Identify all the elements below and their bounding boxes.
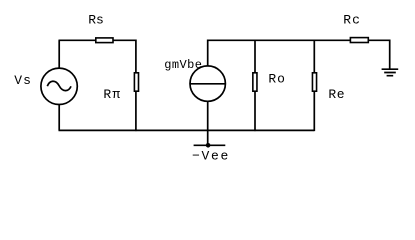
wire Ro bottom to rail bbox=[254, 92, 256, 132]
wire Rs to Rpi corner bbox=[113, 40, 136, 73]
resistor Re bbox=[312, 73, 316, 91]
voltage source Vs bbox=[41, 68, 77, 104]
svg-text:Re: Re bbox=[328, 87, 345, 102]
wire Vs bottom to rail bbox=[58, 105, 60, 130]
chord line inside gmVbe bbox=[190, 83, 225, 85]
svg-text:Rs: Rs bbox=[88, 13, 104, 28]
svg-text:gmVbe: gmVbe bbox=[164, 58, 202, 72]
resistor Rs bbox=[96, 38, 113, 43]
ground bbox=[382, 69, 399, 76]
resistor Rpi bbox=[134, 73, 138, 91]
sine wave inside Vs bbox=[47, 81, 71, 90]
resistor Ro bbox=[253, 73, 257, 91]
wire left vertical from top rail to Vs top bbox=[58, 40, 60, 67]
svg-text:Vs: Vs bbox=[14, 73, 32, 88]
wire top left horizontal to Rs bbox=[59, 39, 97, 41]
wire Ro top bbox=[254, 40, 256, 74]
wire gmVbe bottom through rail to -Vee bar bbox=[207, 101, 209, 146]
wire Rc to ground corner bbox=[369, 40, 390, 69]
wire bottom rail bbox=[59, 129, 315, 131]
svg-text:Ro: Ro bbox=[268, 72, 285, 87]
wire top middle rail bbox=[208, 39, 350, 41]
resistor Rc bbox=[350, 38, 368, 43]
wire Re top bbox=[313, 40, 315, 74]
svg-text:Rπ: Rπ bbox=[103, 87, 121, 102]
wire top rail to gmVbe top bbox=[207, 40, 209, 67]
wire Rpi bottom to rail bbox=[135, 92, 137, 132]
junction dot at -Vee bbox=[206, 143, 211, 148]
svg-text:Rc: Rc bbox=[343, 13, 361, 28]
wire Re bottom to rail bbox=[313, 92, 315, 132]
svg-text:−Vee: −Vee bbox=[192, 148, 230, 163]
current source gmVbe bbox=[190, 66, 225, 101]
-Vee supply bar bbox=[194, 144, 226, 146]
